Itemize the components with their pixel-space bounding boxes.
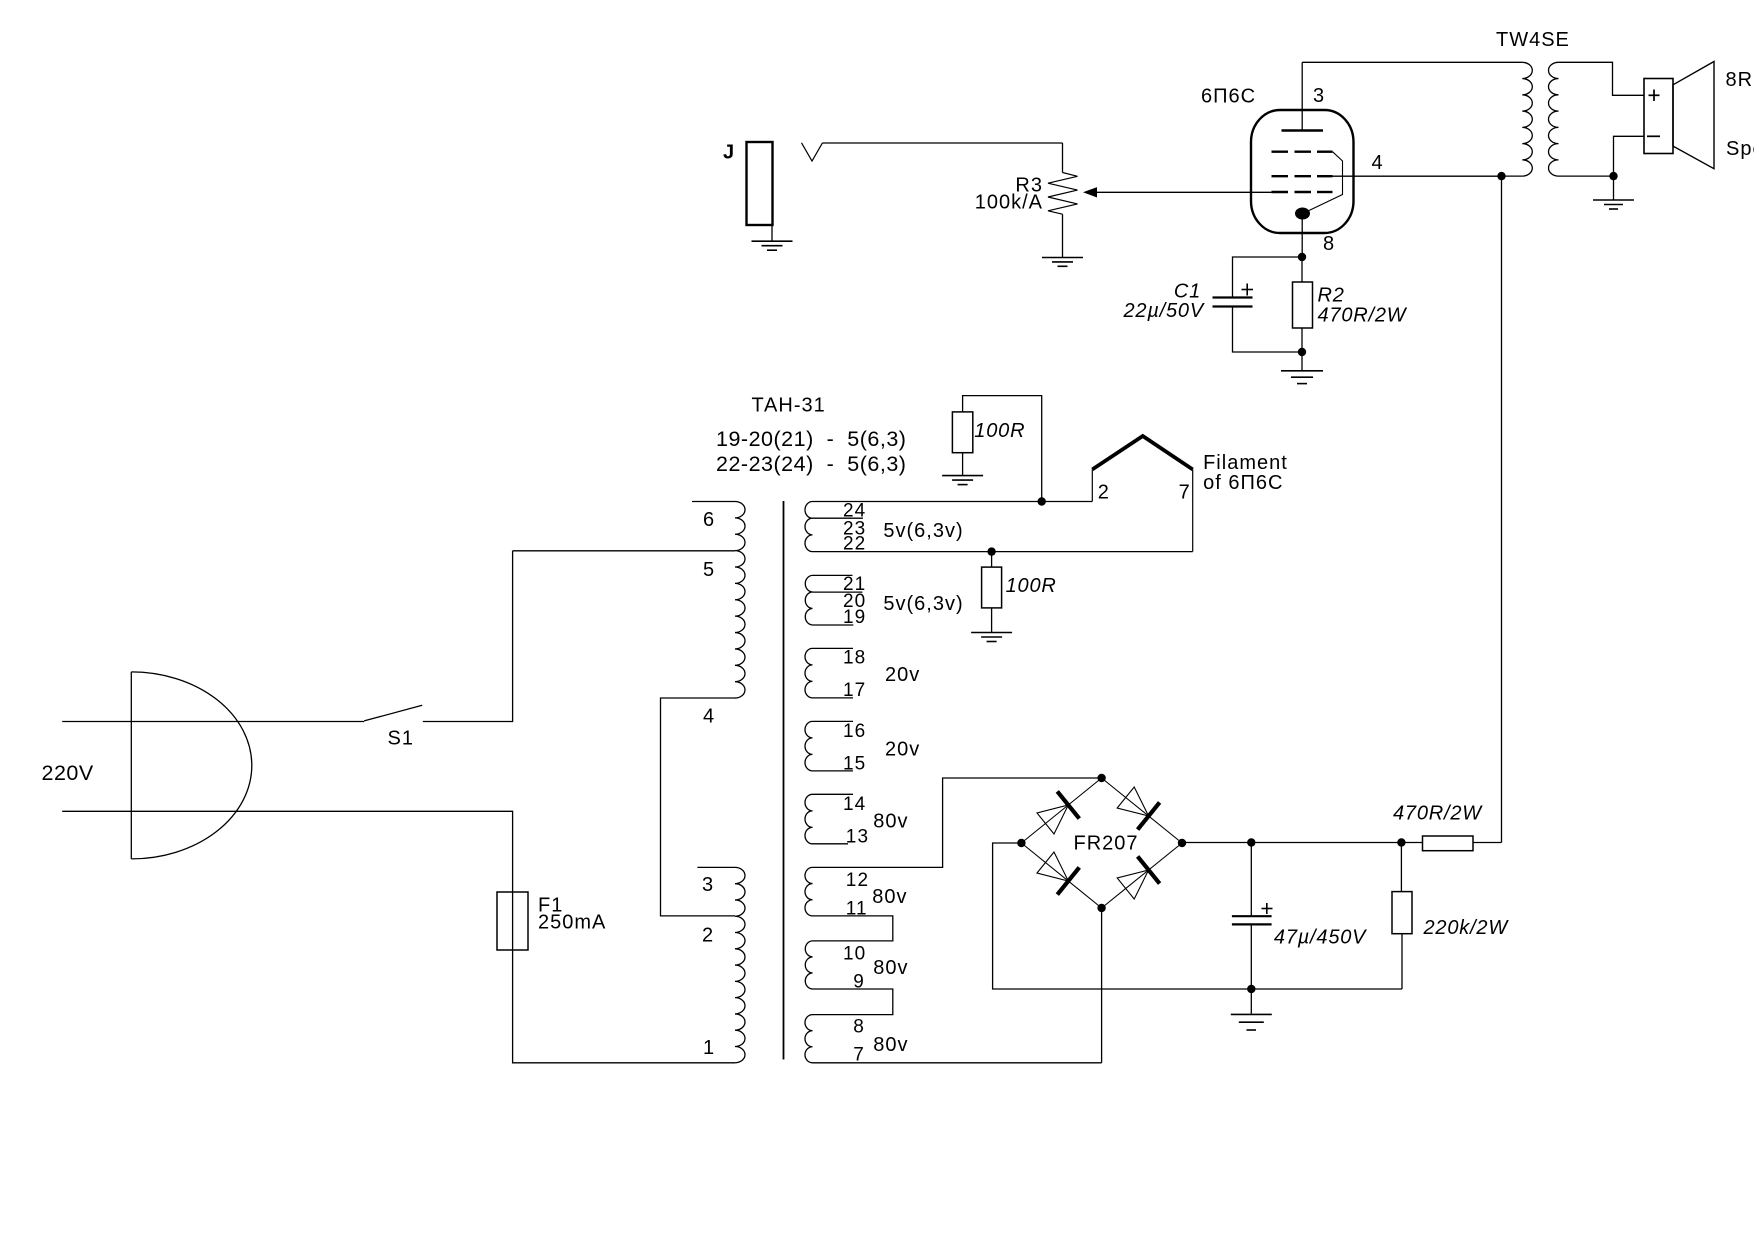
svg-text:5v(6,3v): 5v(6,3v) [883,520,963,542]
wire input to R3 [823,143,1063,173]
svg-text:47µ/450V: 47µ/450V [1274,927,1367,949]
pin 19 stub [813,607,867,628]
tube U1 6П6С envelope [1201,86,1354,234]
svg-text:5: 5 [703,559,715,581]
svg-text:Speaker: Speaker [1726,138,1754,160]
capacitor 47µ/450V [1232,843,1367,990]
ground (R3) [1042,258,1083,267]
wire 11-10 jumper [813,899,893,941]
pin 15 stub [813,754,867,775]
svg-text:2: 2 [702,925,714,947]
label 80v #3 [873,957,908,979]
svg-text:J: J [723,142,734,164]
ground (R2) [1281,371,1323,384]
node bridge bottom [1097,904,1105,912]
svg-text:19-20(21) - 5(6,3): 19-20(21) - 5(6,3) [716,427,906,451]
resistor 470R/2W [1393,803,1502,851]
svg-text:of 6П6С: of 6П6С [1203,472,1283,494]
switch S1 [364,705,422,749]
resistor 100R #1 [952,396,1041,502]
ТАН-31 primary upper winding [735,502,745,699]
label 5v(6,3v) #2 [883,593,963,615]
node R2 bottom junction [1298,348,1306,356]
label 80v #2 [872,886,907,908]
wire C1 bottom [1233,307,1303,353]
svg-text:15: 15 [843,754,866,775]
wire speaker minus [1614,136,1645,176]
pin 21 stub [813,574,867,595]
svg-text:ТАН-31: ТАН-31 [752,395,826,417]
resistor R2 470R/2W [1293,257,1408,352]
label 20v #1 [885,664,920,686]
winding 16-15 (20v) [805,721,813,771]
wire R2 to ground [1301,352,1303,370]
node bridge right [1178,839,1186,847]
pin 20 stub [813,591,867,612]
pin 8 lead [1302,219,1335,257]
wire cathode to C1 [1233,257,1303,298]
node bridge top [1097,774,1105,782]
svg-text:470R/2W: 470R/2W [1393,803,1483,825]
pin 17 stub [813,680,867,701]
node rail22 junction [987,547,995,555]
svg-text:11: 11 [846,899,868,920]
svg-text:Filament: Filament [1203,452,1288,474]
svg-text:80v: 80v [872,886,907,908]
svg-text:80v: 80v [873,957,908,979]
OT secondary winding [1549,62,1559,176]
wire S1 to pin5 [423,551,513,722]
wire F1 to pin1 [513,950,735,1063]
potentiometer R3 100k/A [975,173,1078,215]
wire OT primary bottom [1502,175,1523,177]
svg-text:19: 19 [843,607,866,628]
ТАН-31 core [783,501,785,1060]
diode D1 [1037,791,1079,834]
fuse F1 250mA [497,892,606,950]
pin 14 stub [813,794,867,815]
svg-text:100R: 100R [1006,575,1057,597]
svg-text:2: 2 [1098,482,1110,504]
ground (jack) [752,241,793,250]
svg-text:470R/2W: 470R/2W [1318,305,1408,327]
winding 12-11 (80v) [805,867,813,916]
label 80v #1 [873,811,908,833]
tube cathode [1295,208,1310,220]
pin 3 stub [697,867,735,896]
input jack J [723,142,773,242]
winding 10-9 (80v) [805,941,812,989]
pin 13 stub [813,826,870,847]
svg-text:220V: 220V [42,761,94,785]
wire 9-8 jumper [813,972,893,1015]
svg-text:3: 3 [702,874,714,896]
ground (main filter) [1231,989,1272,1030]
transformer ТАН-31 label [716,395,906,477]
pin 1 label [703,1037,715,1059]
winding 24-22 (5v) [805,502,813,552]
svg-text:9: 9 [853,972,865,993]
wire 12 to bridge [813,778,1102,891]
svg-text:20v: 20v [885,739,920,761]
pin 3 lead [1302,62,1325,130]
pin 4 wire (screen to B+) [1333,152,1502,176]
svg-text:22-23(24) - 5(6,3): 22-23(24) - 5(6,3) [716,452,906,476]
node B+ / primary [1497,172,1505,180]
pin 23 stub [813,518,867,539]
svg-text:220k/2W: 220k/2W [1423,917,1510,939]
svg-text:8: 8 [1323,233,1335,255]
bridge rectifier FR207 frame [1021,778,1182,908]
R3 wiper arrow [1083,187,1272,197]
wire OT sec bottom [1559,175,1614,177]
220V mains plug [42,672,252,859]
svg-text:12: 12 [846,870,869,891]
svg-text:R2: R2 [1318,285,1345,307]
filament of 6П6С [1092,436,1288,552]
svg-text:1: 1 [703,1037,715,1059]
beam plate link [1309,152,1343,211]
node 470R junction [1397,838,1405,846]
svg-text:TW4SE: TW4SE [1496,29,1570,51]
winding 21-19 (5v) [805,575,812,625]
capacitor C1 22µ/50V [1122,281,1253,323]
label 5v(6,3v) #1 [883,520,963,542]
svg-text:6: 6 [703,509,715,531]
svg-text:80v: 80v [873,811,908,833]
node OT sec bottom [1609,172,1617,180]
diode D4 [1117,856,1159,899]
ground (OT secondary) [1593,176,1634,209]
svg-text:FR207: FR207 [1074,832,1139,854]
resistor 100R #2 [982,552,1057,632]
svg-text:5v(6,3v): 5v(6,3v) [883,593,963,615]
wire bridge bottom to pin7 [1101,908,1103,1063]
svg-text:10: 10 [843,944,866,965]
pin 18 stub [813,648,867,669]
svg-text:80v: 80v [873,1034,908,1056]
svg-text:3: 3 [1313,85,1325,107]
winding 18-17 (20v) [805,648,813,698]
winding 14-13 (80v) [805,794,813,844]
node cathode junction [1298,253,1306,261]
pin 4 to pin 2 link [661,698,736,947]
svg-text:17: 17 [843,680,866,701]
svg-text:18: 18 [843,648,866,669]
svg-text:22µ/50V: 22µ/50V [1122,300,1204,322]
svg-text:4: 4 [1372,152,1384,174]
wire 24 rail [813,500,1093,521]
svg-text:22: 22 [843,534,866,555]
wire B+ rail (bridge to 470R) [1182,842,1423,844]
wire 7 to bridge [813,1044,1102,1065]
pin 16 stub [813,721,867,742]
tube grids [1272,152,1333,192]
label 20v #2 [885,739,920,761]
svg-text:6П6С: 6П6С [1201,86,1256,108]
svg-text:100k/A: 100k/A [975,192,1043,214]
B+ rail vertical [1501,176,1503,842]
transformer TW4SE label [1496,29,1570,51]
pin 6 stub [692,502,735,532]
node cap top [1247,838,1255,846]
svg-text:14: 14 [843,794,866,815]
tube plate (anode) [1282,129,1324,132]
wire pin3 to OT primary [1302,61,1522,63]
speaker 8R [1644,62,1754,169]
pin 8 label [853,1017,865,1038]
svg-text:250mA: 250mA [538,912,606,934]
diode D3 [1037,852,1079,895]
svg-text:7: 7 [853,1044,865,1065]
label 80v #4 [873,1034,908,1056]
svg-text:13: 13 [846,826,869,847]
wire mains bottom [62,811,512,892]
winding 8-7 (80v) [805,1015,813,1063]
wire OT sec top to speaker [1559,62,1645,95]
node bridge left [1017,839,1025,847]
wire bridge left to 0V rail [993,843,1402,989]
resistor 220k/2W [1392,843,1509,990]
wire R3 bottom [1062,214,1064,257]
node cap bottom [1247,985,1255,993]
wire 22 rail [813,534,1193,555]
pin 5 wire [513,551,735,581]
svg-text:7: 7 [1179,482,1191,504]
svg-text:20v: 20v [885,664,920,686]
OT primary winding [1522,62,1532,176]
pin 10 label [843,944,866,965]
ground (100R #1) [942,476,983,485]
ТАН-31 primary lower winding [735,867,745,1062]
node rail24 junction [1038,497,1046,505]
svg-text:100R: 100R [974,420,1025,442]
ground (100R #2) [971,633,1012,642]
svg-text:8R: 8R [1726,69,1754,91]
svg-text:16: 16 [843,721,866,742]
diode D2 [1117,787,1159,830]
input V mark [802,143,823,161]
svg-text:S1: S1 [388,728,414,750]
svg-text:4: 4 [703,706,715,728]
svg-text:8: 8 [853,1017,865,1038]
wire mains top [62,721,364,723]
